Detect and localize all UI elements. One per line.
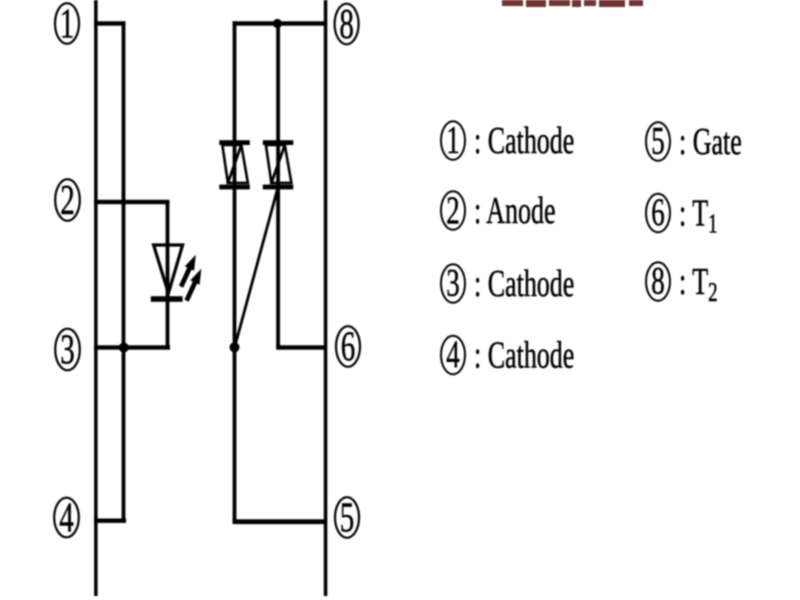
- node junction dot on pin8 line: [273, 19, 282, 28]
- svg-text:8: 8: [339, 1, 354, 48]
- LED light emission arrow 2: [184, 269, 201, 302]
- svg-text:2: 2: [60, 177, 75, 224]
- triac Q2 bottom bar: [263, 185, 294, 190]
- triac Q1 bottom bar: [219, 185, 250, 190]
- svg-text:: T2: : T2: [679, 261, 718, 308]
- triac Q1 left triangle (apex down): [222, 145, 241, 183]
- pin 3 lead wire: [94, 345, 170, 349]
- svg-text:8: 8: [651, 260, 664, 303]
- LED D1 triangle (anode, apex down): [154, 245, 183, 293]
- svg-text:3: 3: [446, 262, 459, 305]
- legend row 6: circled 6: [646, 191, 670, 234]
- triac Q1 right triangle (apex up): [228, 145, 248, 183]
- heading sliver (dark red text cut off at top): [502, 0, 643, 7]
- svg-text:4: 4: [59, 494, 74, 541]
- pin label circle 6: [336, 323, 360, 370]
- wire: second vertical pin8 junction to pin6: [276, 21, 280, 347]
- legend row 4: circled 4: [441, 333, 465, 376]
- legend row 2: circled 2: [441, 189, 465, 232]
- pin label circle 8: [335, 1, 359, 48]
- node junction dot (gate node) on main vertical: [230, 342, 240, 352]
- package outline right edge: [324, 0, 328, 596]
- svg-text:: Cathode: : Cathode: [474, 263, 574, 305]
- pin label circle 4: [54, 494, 79, 541]
- triac Q1 top bar: [219, 140, 250, 145]
- svg-text:6: 6: [341, 323, 356, 370]
- triac Q2 right triangle (apex up): [271, 145, 291, 183]
- svg-text:6: 6: [651, 191, 664, 234]
- pin 6 lead wire: [276, 345, 326, 349]
- legend row 1: circled 1: [441, 119, 465, 162]
- LED light emission arrow 1: [179, 255, 196, 288]
- package outline left edge: [94, 0, 98, 596]
- svg-text:: Gate: : Gate: [679, 121, 742, 163]
- svg-text:5: 5: [651, 120, 664, 163]
- svg-text:5: 5: [340, 494, 355, 541]
- legend row 3: circled 3: [441, 262, 465, 305]
- svg-text:: Cathode: : Cathode: [474, 335, 574, 377]
- pin label circle 5: [335, 494, 359, 541]
- pin label circle 1: [55, 0, 79, 47]
- pin 1 lead wire: [94, 21, 126, 25]
- LED D1 cathode bar: [151, 296, 183, 302]
- node junction dot on pin3 line: [119, 343, 129, 353]
- pin 4 lead wire: [94, 519, 126, 523]
- pin 2 lead wire: [94, 200, 170, 204]
- svg-text:: Cathode: : Cathode: [474, 120, 574, 162]
- svg-text:: T1: : T1: [679, 193, 718, 240]
- wire: main vertical (T2 branch) pin8 to pin5: [233, 21, 237, 523]
- pin label circle 3: [55, 326, 80, 373]
- pin 5 lead wire: [233, 519, 328, 524]
- legend row 5: circled 5: [646, 120, 670, 163]
- svg-text:1: 1: [446, 119, 459, 162]
- triac Q2 top bar: [263, 140, 294, 145]
- pin 8 lead wire: [233, 21, 328, 25]
- svg-text:1: 1: [60, 0, 75, 47]
- triac Q2 left triangle (apex down): [266, 145, 285, 183]
- svg-text:2: 2: [446, 189, 459, 232]
- svg-text:4: 4: [446, 333, 460, 376]
- svg-text:3: 3: [60, 326, 75, 373]
- pin label circle 2: [55, 177, 80, 224]
- wire: LED branch vertical from pin2 to pin3: [166, 202, 170, 348]
- svg-text:: Anode: : Anode: [474, 190, 556, 232]
- wire: vertical from pin1 to pin4: [122, 21, 126, 521]
- legend row 7: circled 8: [646, 260, 670, 303]
- wire: gate diagonal from Q2 to gate node: [235, 189, 278, 347]
